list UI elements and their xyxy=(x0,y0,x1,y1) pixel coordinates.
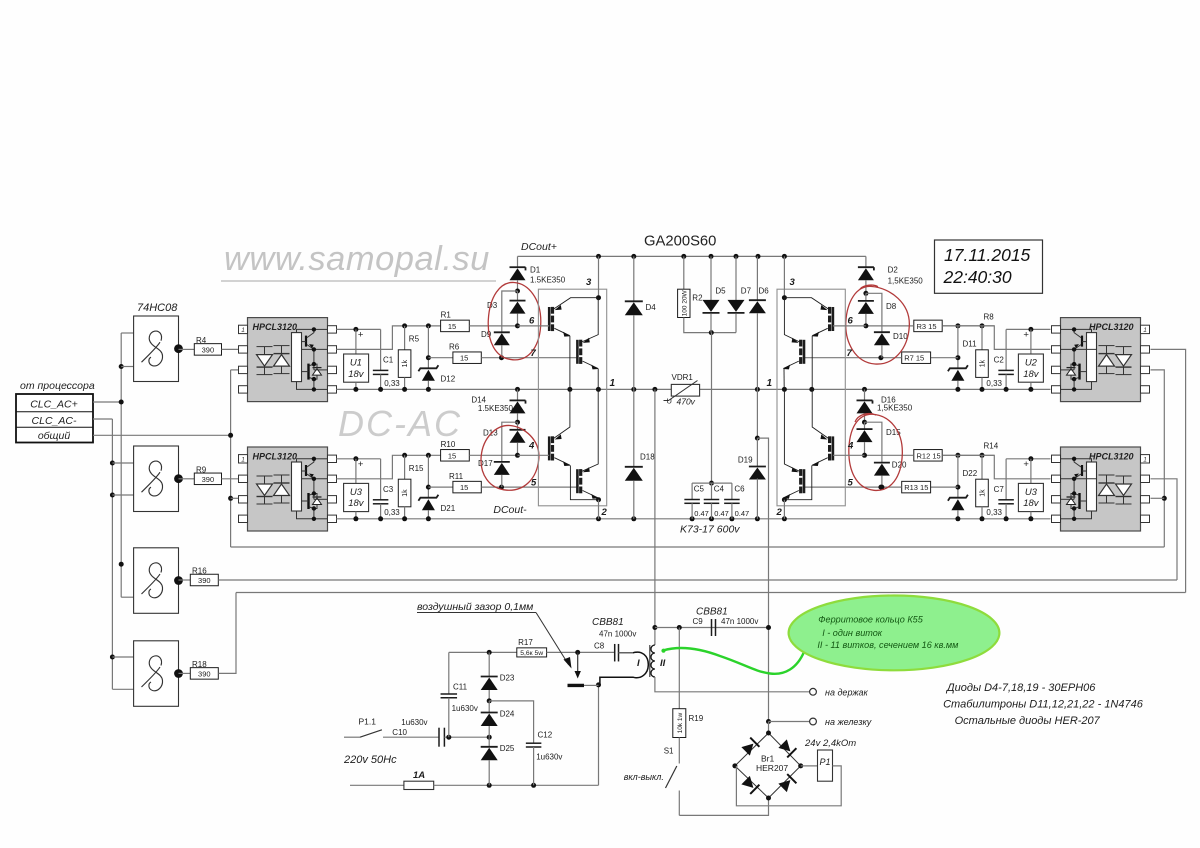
svg-text:220v 50Hc: 220v 50Hc xyxy=(343,754,397,766)
svg-text:I: I xyxy=(637,658,640,669)
resistor R10 15 xyxy=(441,450,470,462)
wire output jog U3 xyxy=(336,455,440,479)
capacitor C3 0,33 xyxy=(380,459,382,500)
svg-text:D22: D22 xyxy=(963,469,978,478)
svg-text:0,33: 0,33 xyxy=(384,379,400,388)
svg-text:общий: общий xyxy=(38,430,71,442)
IGBT Q5 emitter to rail xyxy=(811,336,813,390)
svg-text:U3: U3 xyxy=(350,487,363,498)
svg-text:R17: R17 xyxy=(518,638,533,647)
svg-text:DCout+: DCout+ xyxy=(521,241,557,253)
wire supply U2 xyxy=(1006,328,1050,330)
fuse 1A xyxy=(350,784,404,786)
wire R2 bottom xyxy=(684,318,736,333)
svg-text:5: 5 xyxy=(848,478,854,489)
svg-text:C4: C4 xyxy=(714,485,725,494)
capacitor C10 1u630v xyxy=(438,728,440,747)
svg-text:HPCL3120: HPCL3120 xyxy=(1089,452,1134,462)
IGBT Q1 emitter to rail xyxy=(569,336,571,390)
svg-text:R18: R18 xyxy=(192,660,207,669)
svg-text:HPCL3120: HPCL3120 xyxy=(253,322,298,332)
wire emitter rail (pin2) xyxy=(336,518,1050,520)
svg-text:D4: D4 xyxy=(646,303,657,312)
svg-text:7: 7 xyxy=(531,348,537,359)
svg-text:C1: C1 xyxy=(383,356,394,365)
resistor R16 xyxy=(179,579,191,581)
wire secondary to derzhak xyxy=(655,677,810,692)
gate U4D 74HC08 xyxy=(134,641,179,707)
regulator U3 18v xyxy=(355,459,357,484)
svg-text:R2: R2 xyxy=(692,294,703,303)
svg-text:1u630v: 1u630v xyxy=(452,704,478,713)
svg-text:R6: R6 xyxy=(449,342,460,351)
zener D12 xyxy=(426,323,431,328)
svg-text:воздушный зазор 0,1мм: воздушный зазор 0,1мм xyxy=(417,601,533,613)
svg-text:на держак: на держак xyxy=(825,688,869,698)
svg-text:CBB81: CBB81 xyxy=(592,617,624,628)
svg-text:D5: D5 xyxy=(715,287,726,296)
svg-text:D1: D1 xyxy=(530,266,541,275)
svg-text:1k: 1k xyxy=(402,489,409,497)
svg-text:CLC_AC-: CLC_AC- xyxy=(32,415,77,427)
diode D20 xyxy=(865,422,882,462)
svg-text:1,5KE350: 1,5KE350 xyxy=(888,277,924,286)
svg-text:390: 390 xyxy=(202,346,215,355)
svg-text:C8: C8 xyxy=(594,642,605,651)
svg-text:Br1: Br1 xyxy=(761,754,775,764)
gate wire node 6 into module xyxy=(518,325,550,327)
svg-text:100 20W: 100 20W xyxy=(681,289,688,316)
resistor R2 100 20W xyxy=(683,256,685,289)
resistor R18 xyxy=(179,672,191,674)
gate U4A 74HC08 xyxy=(134,316,179,382)
svg-text:C10: C10 xyxy=(392,728,407,737)
diode D9 xyxy=(502,291,518,332)
wire R16 line xyxy=(218,579,1177,581)
svg-text:24v 2,4kOm: 24v 2,4kOm xyxy=(804,738,856,749)
svg-text:U: U xyxy=(667,397,672,406)
svg-text:C3: C3 xyxy=(383,485,394,494)
optocoupler HPCL3120 bottom-right xyxy=(1061,447,1141,531)
svg-text:1: 1 xyxy=(767,378,773,389)
regulator U3 18v xyxy=(1030,459,1032,484)
svg-text:C7: C7 xyxy=(994,485,1005,494)
IGBT Q6 collector xyxy=(784,298,799,342)
svg-text:R15: R15 xyxy=(409,464,424,473)
svg-text:1u630v: 1u630v xyxy=(536,753,562,762)
IGBT Q4 bottom of lower half xyxy=(576,469,579,493)
svg-text:D20: D20 xyxy=(892,461,907,470)
svg-text:1A: 1A xyxy=(413,770,425,781)
svg-text:17.11.2015: 17.11.2015 xyxy=(944,245,1031,265)
svg-text:R9: R9 xyxy=(196,465,207,474)
svg-text:D7: D7 xyxy=(741,287,752,296)
wire supply U3 xyxy=(336,458,380,460)
svg-text:S1: S1 xyxy=(664,747,674,756)
svg-text:10k 1w: 10k 1w xyxy=(677,713,684,734)
svg-text:U3: U3 xyxy=(1025,487,1038,498)
resistor R17 5,6k 5w xyxy=(517,648,547,657)
transformer T1 core xyxy=(649,645,651,677)
TVS diode D16 1,5KE350 xyxy=(864,389,866,400)
IGBT Q6 emitter to rail xyxy=(783,369,785,390)
svg-text:2: 2 xyxy=(776,507,783,518)
svg-text:R1: R1 xyxy=(441,311,452,320)
capacitor C8 CBB81 47n 1000v xyxy=(614,644,616,662)
wire obschiy line xyxy=(230,370,232,547)
svg-text:P1: P1 xyxy=(819,757,830,767)
svg-text:1: 1 xyxy=(241,456,245,463)
IGBT Q7 collector to mid rail xyxy=(812,389,828,438)
diode D24 xyxy=(488,701,490,713)
switch S1 xyxy=(678,738,680,764)
svg-text:HPCL3120: HPCL3120 xyxy=(253,452,298,462)
svg-text:R4: R4 xyxy=(196,336,207,345)
regulator U1 18v xyxy=(355,329,357,354)
svg-text:1k: 1k xyxy=(980,359,987,367)
wire C9 bus xyxy=(655,627,769,629)
svg-text:15: 15 xyxy=(460,354,468,363)
svg-text:+: + xyxy=(1023,459,1029,470)
svg-text:C2: C2 xyxy=(994,356,1005,365)
module pin 3 left xyxy=(598,256,600,297)
svg-text:C12: C12 xyxy=(538,731,553,740)
svg-text:390: 390 xyxy=(198,576,211,585)
red circle around D13 D17 xyxy=(481,425,539,490)
wire right line to U3 block xyxy=(1151,479,1178,580)
resistor R8 1k xyxy=(980,323,985,328)
red circle around D3 D9 xyxy=(488,282,541,359)
diode D17 xyxy=(502,422,518,462)
svg-text:D3: D3 xyxy=(487,301,498,310)
wire obschiy bus xyxy=(93,434,231,436)
svg-text:R8: R8 xyxy=(984,312,995,321)
wire supply U3 xyxy=(1006,458,1050,460)
optocoupler HPCL3120 top-left xyxy=(248,318,328,402)
svg-text:вкл-выкл.: вкл-выкл. xyxy=(624,772,664,782)
svg-text:R10: R10 xyxy=(441,440,456,449)
module pin 3 right xyxy=(783,256,785,297)
capacitor C1 0,33 xyxy=(380,329,382,370)
svg-text:R11: R11 xyxy=(449,472,464,481)
resistor R14 1k xyxy=(980,453,985,458)
svg-text:R14: R14 xyxy=(984,442,999,451)
IGBT Q8 emitter to pin2 xyxy=(783,498,785,500)
svg-text:1.5KE350: 1.5KE350 xyxy=(530,276,566,285)
svg-text:U1: U1 xyxy=(350,358,362,369)
gate wire node 4 into module xyxy=(518,454,550,456)
svg-text:6: 6 xyxy=(529,316,535,327)
IGBT Q7 emitter xyxy=(784,465,812,500)
svg-text:0.47: 0.47 xyxy=(694,509,709,518)
wire CLC_AC- to bus xyxy=(93,418,112,420)
svg-text:R13 15: R13 15 xyxy=(904,483,928,492)
green note ellipse xyxy=(789,596,1000,671)
svg-text:D24: D24 xyxy=(500,710,515,719)
optocoupler HPCL3120 bottom-left xyxy=(248,447,328,531)
svg-text:1: 1 xyxy=(1143,327,1147,334)
capacitor C6 0.47 xyxy=(692,482,732,484)
IGBT Q1 top xyxy=(548,307,551,331)
svg-text:D25: D25 xyxy=(500,744,515,753)
wire R18 line xyxy=(236,592,1186,594)
wire supply U1 xyxy=(336,328,380,330)
resistor R1 15 xyxy=(441,320,470,332)
terminal na derzhak xyxy=(810,688,817,695)
wire obschiy to right blocks xyxy=(1151,370,1165,547)
resistor R7 15 xyxy=(931,357,958,359)
IGBT Q5 top xyxy=(832,307,835,331)
TVS diode D14 1.5KE350 xyxy=(517,389,519,400)
wire right module output branch xyxy=(756,389,758,438)
svg-text:15: 15 xyxy=(448,322,456,331)
diode D18 xyxy=(633,389,635,466)
svg-text:от процессора: от процессора xyxy=(20,380,95,392)
IGBT Q4 collector to mid rail xyxy=(582,389,598,471)
svg-text:1: 1 xyxy=(610,378,616,389)
svg-text:D8: D8 xyxy=(886,302,897,311)
svg-text:HER207: HER207 xyxy=(756,763,788,773)
wire to C9 right xyxy=(757,438,768,721)
IGBT Q4 emitter to pin2 xyxy=(597,498,599,500)
wire output jog U2 xyxy=(942,326,1050,350)
svg-text:3: 3 xyxy=(790,277,796,288)
svg-text:1,5KE350: 1,5KE350 xyxy=(877,404,913,413)
red circle around D15 D20 xyxy=(849,414,903,491)
svg-text:Остальные диоды HER-207: Остальные диоды HER-207 xyxy=(955,715,1101,727)
IGBT Q1 collector xyxy=(554,298,599,309)
bus vertical V2 xyxy=(111,419,113,689)
diode D15 xyxy=(864,422,866,429)
diode D4 xyxy=(633,256,635,301)
date box xyxy=(935,240,1043,293)
IGBT Q2 collector xyxy=(582,298,598,342)
svg-text:1: 1 xyxy=(1143,456,1147,463)
capacitor C11 1u630v xyxy=(448,652,450,694)
wire R18 to line xyxy=(218,593,236,674)
diode D7 xyxy=(735,256,737,301)
svg-text:0,33: 0,33 xyxy=(986,508,1002,517)
svg-text:47n 1000v: 47n 1000v xyxy=(721,617,758,626)
svg-text:HPCL3120: HPCL3120 xyxy=(1089,322,1134,332)
gate wire node 4 into module right xyxy=(833,454,865,456)
diode D10 xyxy=(866,293,882,332)
svg-text:www.samopal.su: www.samopal.su xyxy=(224,240,490,278)
zener D21 xyxy=(426,453,431,458)
capacitor C9 CBB81 47n 1000v xyxy=(711,619,713,636)
svg-text:2: 2 xyxy=(601,507,608,518)
zener D22 xyxy=(955,453,960,458)
svg-text:D12: D12 xyxy=(441,375,456,384)
svg-text:4: 4 xyxy=(847,441,854,452)
svg-text:18v: 18v xyxy=(348,498,365,509)
svg-text:390: 390 xyxy=(202,475,215,484)
IGBT Q5 collector xyxy=(784,298,828,309)
IGBT Q8 lower half xyxy=(803,469,806,493)
svg-text:+: + xyxy=(358,459,364,470)
wire left module output drop xyxy=(654,389,656,645)
transformer primary I loop xyxy=(600,652,648,685)
svg-text:18v: 18v xyxy=(1023,369,1040,380)
svg-text:D21: D21 xyxy=(441,504,456,513)
svg-text:R16: R16 xyxy=(192,567,207,576)
TVS diode D2 1,5KE350 xyxy=(865,256,867,267)
svg-text:Ферритовое кольцо К55: Ферритовое кольцо К55 xyxy=(818,615,923,625)
resistor R11 15 xyxy=(428,486,453,488)
svg-text:K73-17 600v: K73-17 600v xyxy=(680,524,740,536)
spark gap bar xyxy=(568,684,585,687)
svg-text:D11: D11 xyxy=(963,340,978,349)
svg-text:390: 390 xyxy=(198,670,211,679)
bridge diode bottom-right xyxy=(778,774,796,792)
resistor R4 xyxy=(179,348,195,350)
IGBT Q2 emitter to rail xyxy=(597,369,599,390)
diode D23 xyxy=(488,652,490,676)
svg-text:D17: D17 xyxy=(478,459,493,468)
svg-text:R19: R19 xyxy=(689,714,704,723)
svg-text:18v: 18v xyxy=(1023,498,1040,509)
IGBT Q8 collector to mid rail xyxy=(784,389,799,471)
wire S1 to bridge xyxy=(679,798,768,815)
wire bottom rail to spark gap xyxy=(434,784,599,786)
svg-text:5,6к 5w: 5,6к 5w xyxy=(520,650,543,657)
svg-text:CBB81: CBB81 xyxy=(696,607,728,618)
bridge rectifier Br1 HER207 xyxy=(768,722,770,734)
gate U4C 74HC08 xyxy=(134,548,179,614)
svg-text:18v: 18v xyxy=(348,369,365,380)
svg-text:D10: D10 xyxy=(893,332,908,341)
IGBT Q3 top of lower half xyxy=(548,436,551,460)
resistor R3 15 xyxy=(914,320,942,332)
wire DCout+ rail xyxy=(518,255,866,257)
svg-text:15: 15 xyxy=(448,451,456,460)
svg-text:II: II xyxy=(660,658,666,669)
svg-text:+: + xyxy=(358,330,364,341)
regulator U2 18v xyxy=(1030,329,1032,354)
IGBT Q7 lower half xyxy=(832,436,835,460)
svg-text:DCout-: DCout- xyxy=(493,504,527,516)
wire C4 feed from snubber xyxy=(711,333,713,484)
module pin 2 left xyxy=(598,500,600,519)
svg-text:C11: C11 xyxy=(453,683,468,692)
svg-text:15: 15 xyxy=(460,483,468,492)
IGBT module box right xyxy=(777,289,845,506)
svg-text:Стабилитроны D11,12,21,22 -: Стабилитроны D11,12,21,22 - 1N4746 xyxy=(943,699,1144,711)
svg-text:5: 5 xyxy=(531,478,537,489)
bridge diode top-right xyxy=(778,739,796,757)
svg-text:1k: 1k xyxy=(402,359,409,367)
resistor R9 xyxy=(179,478,195,480)
red circle around D8 D10 xyxy=(846,285,910,364)
bus vertical V1 xyxy=(120,333,122,597)
wire mid rail left (pin1 left) xyxy=(336,388,671,390)
terminal na zhelezku xyxy=(766,719,771,724)
module pin 2 right xyxy=(783,500,785,519)
wire right line to U2 block xyxy=(1151,349,1186,592)
IGBT Q3 emitter xyxy=(570,465,599,500)
wire R17 line xyxy=(449,651,517,653)
svg-text:R12 15: R12 15 xyxy=(917,451,941,460)
gate input stubs xyxy=(121,332,133,334)
IGBT Q3 collector to mid rail xyxy=(554,389,570,438)
svg-text:4: 4 xyxy=(528,441,535,452)
optocoupler HPCL3120 top-right xyxy=(1061,318,1141,402)
TVS diode D1 1.5KE350 xyxy=(517,256,519,267)
svg-text:D23: D23 xyxy=(500,674,515,683)
resistor R13 15 xyxy=(931,486,958,488)
svg-text:P1.1: P1.1 xyxy=(359,717,377,727)
resistor R12 15 xyxy=(914,450,942,462)
connector box CLC xyxy=(16,394,93,443)
IGBT module box left xyxy=(538,289,606,506)
gate U4B 74HC08 xyxy=(134,446,179,512)
wire output jog U1 xyxy=(336,326,440,350)
wire output jog U3 xyxy=(942,455,1050,479)
svg-text:D6: D6 xyxy=(759,287,770,296)
diode D13 xyxy=(517,422,519,430)
IGBT Q6 bottom xyxy=(803,340,806,364)
svg-text:D2: D2 xyxy=(888,266,899,275)
IGBT Q2 bottom xyxy=(576,340,579,364)
svg-text:0.47: 0.47 xyxy=(714,509,729,518)
svg-text:C5: C5 xyxy=(694,485,705,494)
resistor R5 1k xyxy=(402,323,407,328)
capacitor C12 1u630v xyxy=(489,701,533,743)
diode D8 xyxy=(865,293,867,301)
svg-text:VDR1: VDR1 xyxy=(672,373,694,382)
svg-text:6: 6 xyxy=(848,316,854,327)
bridge diode top-left xyxy=(741,738,759,756)
svg-text:C6: C6 xyxy=(734,485,745,494)
svg-text:D19: D19 xyxy=(738,456,753,465)
svg-text:22:40:30: 22:40:30 xyxy=(943,267,1012,287)
svg-text:R5: R5 xyxy=(409,335,420,344)
wire obschiy long line xyxy=(231,546,1165,548)
svg-text:470v: 470v xyxy=(677,397,696,407)
svg-text:II - 11 витков, сечением 16 кв: II - 11 витков, сечением 16 кв.мм xyxy=(817,640,959,650)
zener D11 xyxy=(955,323,960,328)
capacitor C5 0.47 xyxy=(691,483,693,499)
svg-text:на железку: на железку xyxy=(825,717,872,727)
svg-text:74HC08: 74HC08 xyxy=(137,302,178,314)
relay coil P1 xyxy=(801,765,818,767)
diode D25 xyxy=(488,737,490,747)
capacitor C2 0,33 xyxy=(1005,329,1007,370)
svg-text:R3 15: R3 15 xyxy=(917,322,937,331)
svg-text:Диоды D4-7,18,19 - 30ЕРН06: Диоды D4-7,18,19 - 30ЕРН06 xyxy=(945,682,1096,694)
transformer secondary II winding xyxy=(651,645,655,677)
diode D19 xyxy=(756,438,758,466)
resistor R15 1k xyxy=(402,453,407,458)
svg-text:1: 1 xyxy=(241,327,245,334)
wire mid rail right (pin1 right) xyxy=(700,388,1051,390)
gate wire node 6 into module right xyxy=(833,325,866,327)
capacitor C4 0.47 xyxy=(709,481,714,486)
spark gap electrode xyxy=(577,652,579,672)
svg-text:I - один виток: I - один виток xyxy=(822,628,883,638)
svg-text:DC-AC: DC-AC xyxy=(338,403,462,444)
svg-text:1u630v: 1u630v xyxy=(401,718,427,727)
svg-text:R7 15: R7 15 xyxy=(904,354,924,363)
svg-text:C9: C9 xyxy=(693,617,704,626)
svg-text:CLC_AC+: CLC_AC+ xyxy=(30,399,78,411)
svg-text:1.5KE350: 1.5KE350 xyxy=(478,404,514,413)
green pointer curve xyxy=(663,648,804,674)
resistor R19 10k 1w xyxy=(678,628,680,709)
diode D6 xyxy=(756,256,758,300)
svg-text:0.47: 0.47 xyxy=(735,509,750,518)
bridge diode bottom-left xyxy=(741,776,759,794)
